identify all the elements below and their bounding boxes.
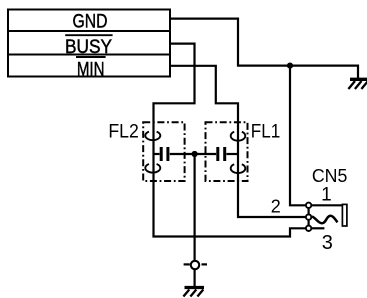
- svg-text:BUSY: BUSY: [65, 36, 112, 58]
- svg-text:3: 3: [322, 232, 333, 254]
- svg-text:FL2: FL2: [108, 122, 139, 143]
- svg-text:FL1: FL1: [251, 122, 281, 143]
- svg-text:MIN: MIN: [77, 59, 105, 81]
- svg-text:2: 2: [271, 197, 281, 217]
- svg-text:1: 1: [321, 185, 332, 206]
- svg-text:CN5: CN5: [312, 166, 348, 186]
- svg-text:GND: GND: [73, 11, 108, 33]
